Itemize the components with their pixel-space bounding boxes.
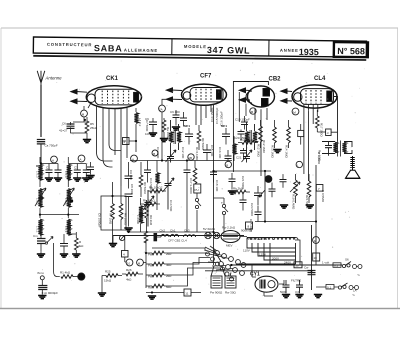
resistor R1 4k <box>60 271 78 279</box>
svg-text:A: A <box>80 158 82 162</box>
svg-text:C17 3-0000: C17 3-0000 <box>189 178 193 194</box>
svg-text:0,1: 0,1 <box>334 264 339 268</box>
primary winding coil B <box>225 276 237 295</box>
tube CK1 <box>86 86 141 109</box>
svg-text:C12 100: C12 100 <box>181 147 185 159</box>
svg-text:B: B <box>226 164 228 168</box>
svg-text:R8 100Ω: R8 100Ω <box>124 213 128 226</box>
oscillator box <box>98 196 127 230</box>
svg-text:9006 BY: 9006 BY <box>241 229 253 233</box>
svg-text:CF7: CF7 <box>200 74 212 80</box>
tube CL4 <box>292 85 337 108</box>
svg-text:0,1: 0,1 <box>327 285 332 289</box>
svg-text:MODELE: MODELE <box>184 44 207 49</box>
svg-text:R26: R26 <box>126 268 132 272</box>
wire R17 to box <box>317 131 337 133</box>
capacitor C4 <box>83 164 90 178</box>
mains bus lower <box>205 270 312 272</box>
wire chains down <box>40 175 68 187</box>
coil L5 <box>232 136 236 161</box>
label CK1 <box>106 76 119 82</box>
svg-text:MF1: MF1 <box>184 124 190 128</box>
svg-text:10: 10 <box>295 264 299 268</box>
coil L5a <box>36 219 43 235</box>
wire speaker loop <box>322 142 335 154</box>
ground filter A <box>282 295 290 298</box>
resistor R5 <box>85 117 98 139</box>
pot arrow R19 <box>290 182 300 192</box>
resistor Rb <box>197 125 205 151</box>
tube CF7 arrows <box>166 88 182 102</box>
fuse 0,1 upper <box>322 261 341 268</box>
capacitor bar Cv <box>154 233 162 241</box>
resistor R11 <box>238 138 258 144</box>
capacitor C7a with ground <box>86 162 94 179</box>
svg-text:R14 1MΩ: R14 1MΩ <box>285 145 289 159</box>
svg-text:L 2400: L 2400 <box>136 215 140 224</box>
ground C3 <box>73 178 81 181</box>
label MODELE <box>184 44 207 49</box>
label 5V 6,2A <box>203 227 215 231</box>
IF transformer MF2 <box>245 122 257 152</box>
label CL4 <box>314 76 326 82</box>
ground column x128 <box>124 228 132 231</box>
svg-text:C1: C1 <box>46 166 50 170</box>
tube CL4 arrows <box>281 89 292 103</box>
svg-text:Pw1 Pw2 Pw3: Pw1 Pw2 Pw3 <box>248 237 268 241</box>
tube CB2 arrows <box>239 88 250 102</box>
bank contacts <box>206 252 234 281</box>
misc value labels <box>129 120 322 212</box>
tube CF7 <box>182 84 227 105</box>
resistor R25 <box>102 270 122 283</box>
mains bus upper <box>230 264 342 266</box>
svg-text:~: ~ <box>357 273 360 279</box>
box 11 <box>184 289 191 296</box>
pickup bus <box>129 231 214 233</box>
label heater tubes <box>168 239 187 243</box>
svg-text:L4 0,3: L4 0,3 <box>138 118 142 127</box>
resistor Rc <box>193 161 197 185</box>
label ALLEMAGNE <box>124 48 158 53</box>
title block divider 2 <box>268 40 270 56</box>
svg-text:C21: C21 <box>236 156 242 160</box>
svg-text:C15 5000pF: C15 5000pF <box>215 107 219 124</box>
wire box4 <box>125 236 147 263</box>
mixer resistor R9 <box>145 200 153 232</box>
capacitor Cm left <box>33 230 46 248</box>
box fuse 10B <box>294 262 302 268</box>
wire mid join <box>40 208 79 218</box>
resistor Rv on line <box>144 231 148 243</box>
node A2 <box>78 155 85 162</box>
label CONSTRUCTEUR <box>47 42 92 48</box>
resistor R26 <box>122 268 143 282</box>
switch S6 <box>342 258 362 269</box>
node B2 <box>225 161 231 167</box>
heater resistor bank <box>146 240 172 290</box>
wire M to cathode <box>73 102 91 122</box>
volume potentiometer <box>259 171 265 221</box>
svg-text:1A: 1A <box>353 289 357 293</box>
svg-text:CL4: CL4 <box>314 76 326 82</box>
box TON <box>313 253 320 261</box>
capacitor C10b <box>170 110 180 130</box>
bank staircase wires <box>152 248 221 286</box>
svg-text:R19 0,4MΩ: R19 0,4MΩ <box>292 194 296 210</box>
lower middle column C14 <box>144 161 153 192</box>
svg-text:MF1: MF1 <box>221 124 227 128</box>
svg-text:X At 9000pF: X At 9000pF <box>42 291 59 295</box>
resistor R7 mid <box>109 182 115 244</box>
resistor R2 4k <box>64 230 84 250</box>
svg-text:C14 500: C14 500 <box>169 200 173 212</box>
capacitor C13 <box>203 144 211 161</box>
switch S3 <box>221 201 228 215</box>
svg-text:C19 100pF: C19 100pF <box>235 118 250 122</box>
wire L3 top bus <box>68 157 86 164</box>
heater lamp 2 <box>213 232 219 238</box>
label 1935 <box>299 47 319 57</box>
variable coil L4b <box>63 188 74 207</box>
svg-text:C8 1500pF: C8 1500pF <box>98 213 102 228</box>
svg-text:2A: 2A <box>159 108 163 112</box>
svg-text:CY1: CY1 <box>250 272 260 278</box>
resistor R8 mid <box>119 186 127 230</box>
wire CB2 arrow feed <box>239 92 246 122</box>
label CY1 <box>250 272 260 278</box>
svg-text:FILTRE: FILTRE <box>291 279 301 283</box>
svg-text:S6: S6 <box>345 258 349 262</box>
wire L1 top bus <box>40 157 58 164</box>
svg-text:110V: 110V <box>243 249 250 253</box>
label Antenne <box>45 76 63 81</box>
svg-text:N° 568: N° 568 <box>337 46 365 56</box>
svg-text:CK1: CK1 <box>106 76 119 82</box>
svg-text:Rw 30Ω: Rw 30Ω <box>225 291 237 295</box>
capacitor C11b <box>180 112 187 127</box>
mixer coil L7 <box>136 198 143 232</box>
variable cap C11 <box>143 190 154 227</box>
svg-text:11: 11 <box>185 292 188 296</box>
capacitor C output <box>325 142 332 156</box>
svg-text:L 0,3: L 0,3 <box>64 171 68 178</box>
rectifier tube CY1 <box>255 276 278 292</box>
ground filter C <box>314 295 322 298</box>
antenna <box>37 71 45 85</box>
ground R5 <box>83 140 91 143</box>
svg-text:C 0,5MΩ: C 0,5MΩ <box>321 190 325 203</box>
ground heater left <box>109 236 117 247</box>
resistor Ra <box>162 118 170 141</box>
svg-text:L 0,1: L 0,1 <box>64 226 68 233</box>
svg-text:C13 200: C13 200 <box>156 147 160 159</box>
svg-text:SABA: SABA <box>94 43 123 53</box>
heater chain wire <box>113 235 244 237</box>
capacitor C17 <box>184 161 194 195</box>
svg-text:R11 10kΩ: R11 10kΩ <box>240 138 254 142</box>
fuse 0,1 lower <box>316 285 338 290</box>
label MF2 <box>221 124 227 128</box>
padder box <box>123 138 130 145</box>
ground R2 <box>72 250 80 257</box>
ground C9 <box>149 133 157 136</box>
ground C4 <box>82 178 90 181</box>
ground C1 <box>45 178 53 181</box>
svg-text:C9 100: C9 100 <box>129 170 133 180</box>
svg-text:4kΩ: 4kΩ <box>78 244 84 248</box>
label column C14 C15 <box>210 107 224 126</box>
switch S1 <box>119 235 124 240</box>
wire mid to bottom <box>214 198 225 232</box>
resistor Rb10k second <box>148 186 167 193</box>
capacitor C24b <box>240 194 247 211</box>
label 347 GWL <box>207 45 251 56</box>
tube CB2 <box>246 86 275 107</box>
rotated labels right rail <box>317 152 325 203</box>
ground Cm <box>37 248 45 258</box>
svg-text:CONSTRUCTEUR: CONSTRUCTEUR <box>47 42 92 48</box>
label CF7 <box>200 74 212 80</box>
switch S7 <box>338 283 358 290</box>
svg-text:R17 150Ω: R17 150Ω <box>319 123 323 137</box>
box 4 <box>122 251 129 258</box>
voltage selector contacts <box>210 246 246 276</box>
label MF1 <box>184 124 190 128</box>
title block outer box <box>33 37 366 60</box>
box 7 on AF rail <box>316 185 323 192</box>
svg-text:R7 1MΩ: R7 1MΩ <box>109 213 113 225</box>
shield box detector section <box>233 82 268 173</box>
svg-text:R13 1MΩ: R13 1MΩ <box>271 145 275 159</box>
svg-text:5V 6Ω2A: 5V 6Ω2A <box>203 227 215 231</box>
svg-text:L 0,3: L 0,3 <box>36 171 40 178</box>
jack PU <box>194 184 201 193</box>
resistor Rb2 <box>230 187 250 194</box>
svg-text:5000: 5000 <box>280 290 287 294</box>
svg-text:C9 100: C9 100 <box>170 110 180 114</box>
node B3 <box>152 150 158 156</box>
AVC return bus <box>214 170 272 172</box>
scan page edge right <box>397 28 399 308</box>
svg-text:Rb 10kΩ: Rb 10kΩ <box>143 199 156 203</box>
capacitor C8 <box>125 162 135 194</box>
title block divider 1 <box>171 39 173 55</box>
capacitor C9 <box>145 117 157 136</box>
scan page edge top <box>1 27 398 29</box>
svg-text:Rb 10kΩ2: Rb 10kΩ2 <box>149 186 163 190</box>
svg-text:347 GWL: 347 GWL <box>207 45 251 56</box>
wire MEV to transformer <box>240 237 300 266</box>
node X <box>78 273 85 280</box>
resistor R14 <box>285 120 291 159</box>
ballast tube MEV <box>221 226 253 248</box>
capacitor C21 <box>236 148 247 160</box>
node A3 <box>131 155 138 162</box>
svg-text:~: ~ <box>352 293 355 299</box>
svg-text:Rw 50Ω: Rw 50Ω <box>318 150 322 162</box>
svg-text:C6: C6 <box>62 122 66 126</box>
mains tilde lower <box>352 293 355 299</box>
primary winding coil A <box>210 276 223 295</box>
svg-text:C15 100: C15 100 <box>210 145 214 157</box>
wire antenna lead <box>40 85 42 137</box>
svg-text:R12 1MΩ: R12 1MΩ <box>262 140 266 154</box>
svg-text:C16 100: C16 100 <box>218 147 222 159</box>
label SABA <box>94 43 123 53</box>
node M under CK1 <box>81 110 88 117</box>
svg-text:C8 200: C8 200 <box>130 184 134 194</box>
capacitor C22b <box>228 173 236 194</box>
node M right rail <box>313 237 320 244</box>
capacitor C23c <box>280 174 287 188</box>
scan speckle <box>40 61 365 297</box>
svg-text:3,0: 3,0 <box>295 290 300 294</box>
svg-text:B: B <box>153 152 155 156</box>
svg-text:R1 4kΩ: R1 4kΩ <box>60 271 71 275</box>
svg-text:1935: 1935 <box>299 47 319 57</box>
capacitor C23 <box>250 186 262 216</box>
heater lamp 1 <box>205 232 211 238</box>
label 1A <box>353 289 357 293</box>
switch arm Sa <box>45 237 53 245</box>
node M CB2 <box>250 108 256 114</box>
svg-text:X: X <box>79 276 81 280</box>
tube CK1 arrows <box>71 89 87 103</box>
label CB2 <box>269 77 282 83</box>
svg-text:Ch2: Ch2 <box>160 229 166 233</box>
ground R19 <box>280 205 288 208</box>
node M bottom <box>137 259 144 266</box>
svg-text:10: 10 <box>314 256 318 260</box>
svg-text:C3: C3 <box>74 166 78 170</box>
ground terre <box>38 296 46 299</box>
heater choke Ch3 <box>184 229 196 238</box>
svg-text:L 0,1: L 0,1 <box>36 226 40 233</box>
svg-text:C18 100: C18 100 <box>215 180 219 192</box>
capacitor earth <box>38 286 58 296</box>
ground R25 <box>98 276 106 297</box>
MF1 trimmers <box>166 150 177 163</box>
node 10 <box>126 259 133 266</box>
capacitor Ca 750pF <box>37 140 58 164</box>
speaker transformer <box>333 141 352 157</box>
svg-text:ALLEMAGNE: ALLEMAGNE <box>124 48 158 53</box>
box 8 <box>246 222 253 229</box>
svg-text:Ch1: Ch1 <box>170 229 176 233</box>
wire antenna into filter <box>36 163 41 170</box>
resistor R21 <box>305 174 311 209</box>
svg-text:4kΩ: 4kΩ <box>126 278 132 282</box>
svg-text:CB2: CB2 <box>269 77 282 83</box>
label ANNEE <box>280 48 299 53</box>
resistor R13 <box>271 120 277 159</box>
capacitor C6 <box>59 122 87 134</box>
heater choke Ch2 <box>170 229 179 238</box>
capacitor C3 <box>74 164 81 178</box>
MF2 trimmers <box>242 150 253 163</box>
resistor Rb10k <box>140 199 160 206</box>
node M CL4 <box>292 108 299 115</box>
wire bank bottom <box>146 292 201 294</box>
power transformer windings <box>247 238 298 240</box>
svg-text:Ca 750pF: Ca 750pF <box>45 144 58 148</box>
capacitor C16 <box>218 128 230 159</box>
svg-text:Pw 900Ω: Pw 900Ω <box>210 291 223 295</box>
svg-text:T: T <box>221 201 223 205</box>
svg-text:A: A <box>132 158 134 162</box>
mains tilde upper <box>357 273 360 279</box>
wire PU column <box>187 181 197 233</box>
capacitor C20 <box>234 130 251 141</box>
box fuse d <box>326 129 332 136</box>
svg-text:125V: 125V <box>259 253 266 257</box>
svg-text:10: 10 <box>127 262 131 266</box>
switch S2 <box>195 198 201 208</box>
svg-text:PU: PU <box>195 188 199 192</box>
svg-text:200V: 200V <box>272 257 279 261</box>
resistor R17 <box>316 110 324 137</box>
capacitor C19 <box>235 116 250 130</box>
svg-text:Rc 0,1MΩ: Rc 0,1MΩ <box>195 147 199 161</box>
svg-text:L 0,3: L 0,3 <box>36 198 40 205</box>
oscillator coil L4 <box>134 108 142 130</box>
ground R21 <box>306 205 314 208</box>
wires CF7 drops <box>196 104 214 265</box>
IF transformer MF1 <box>169 120 181 152</box>
node 2A <box>159 105 166 112</box>
capacitor C24c <box>269 183 276 198</box>
heater choke Ch1 <box>160 229 170 238</box>
coil L3 <box>64 164 71 180</box>
mid AVC bus <box>130 160 232 162</box>
capacitor C12 <box>181 128 193 159</box>
svg-text:Ch3: Ch3 <box>184 229 190 233</box>
variable cap C15 <box>163 161 175 210</box>
svg-text:R9 2kΩ: R9 2kΩ <box>149 215 153 226</box>
ground bank <box>148 296 156 299</box>
wires CK1 electrode drops <box>97 107 128 187</box>
capacitor C10 <box>125 194 133 227</box>
ground C2 <box>54 178 62 181</box>
wire terre feed <box>54 243 60 277</box>
wires CB2 drops <box>255 108 267 176</box>
resistor R19 <box>292 174 298 210</box>
scan page edge bottom separator <box>0 308 400 310</box>
svg-text:A: A <box>52 159 54 163</box>
svg-text:Rb 50kΩ: Rb 50kΩ <box>201 138 205 151</box>
resistor R6 <box>139 162 147 197</box>
capacitor C25 <box>249 206 262 232</box>
svg-text:1 volt: 1 volt <box>322 261 329 265</box>
speaker <box>346 156 360 178</box>
filter cap Cw <box>304 225 316 290</box>
node 1B <box>188 154 194 160</box>
svg-text:240V: 240V <box>284 261 291 265</box>
capacitor C5b <box>60 236 68 249</box>
selector fan wires <box>205 247 233 270</box>
svg-text:R25: R25 <box>105 270 111 274</box>
svg-text:Antenne: Antenne <box>45 76 63 81</box>
svg-text:Rw 2,1kΩ: Rw 2,1kΩ <box>222 226 236 230</box>
svg-text:ANNEE: ANNEE <box>280 48 299 53</box>
svg-text:L 0,3: L 0,3 <box>64 198 68 205</box>
variable coil L2 <box>35 188 46 207</box>
title block <box>33 37 368 60</box>
resistor R12 <box>257 120 263 158</box>
capacitor C2 <box>55 164 62 178</box>
svg-text:C7 5000: C7 5000 <box>145 120 149 132</box>
